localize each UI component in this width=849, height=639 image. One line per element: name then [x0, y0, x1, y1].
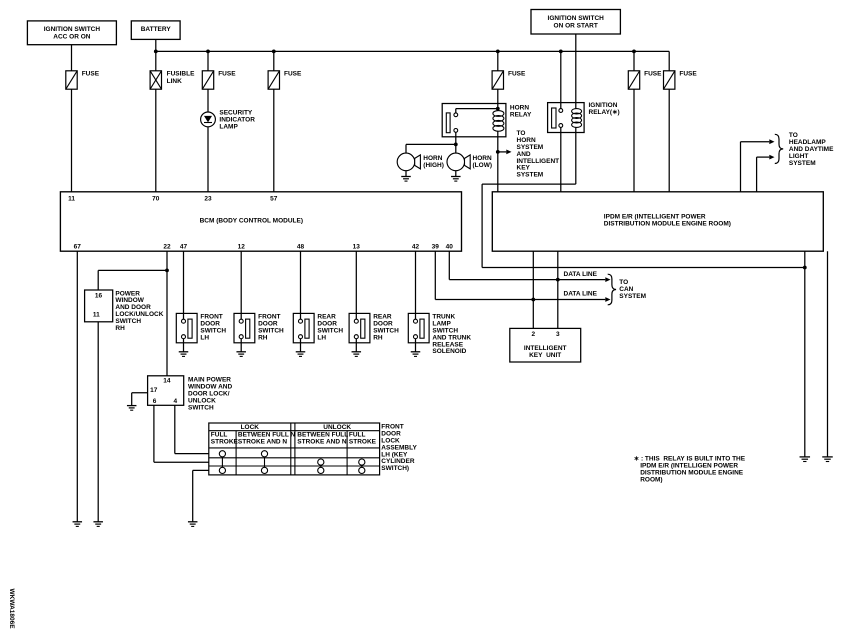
svg-text:IPDM E/R (INTELLIGENT POWER: IPDM E/R (INTELLIGENT POWER [604, 214, 706, 221]
svg-text:48: 48 [297, 244, 305, 251]
svg-text:(HIGH): (HIGH) [423, 162, 444, 169]
svg-text:STROKE: STROKE [211, 438, 239, 445]
svg-text:40: 40 [446, 244, 454, 251]
svg-text:42: 42 [412, 244, 420, 251]
svg-text:UNLOCK: UNLOCK [188, 398, 216, 405]
svg-text:ON OR START: ON OR START [554, 22, 598, 29]
svg-text:RH: RH [115, 325, 125, 332]
svg-text:LOCK: LOCK [241, 424, 260, 431]
svg-text:MAIN POWER: MAIN POWER [188, 376, 231, 383]
svg-text:BATTERY: BATTERY [141, 26, 172, 33]
svg-text:70: 70 [152, 195, 160, 202]
svg-text:N: N [291, 432, 296, 439]
svg-text:RH: RH [258, 334, 268, 341]
svg-text:22: 22 [163, 244, 171, 251]
svg-text:SWITCH: SWITCH [188, 405, 214, 412]
svg-text:IGNITION SWITCH: IGNITION SWITCH [44, 26, 101, 33]
svg-text:LH: LH [317, 334, 326, 341]
svg-text:FUSE: FUSE [508, 70, 526, 77]
svg-text:RELAY(∗): RELAY(∗) [589, 109, 620, 116]
svg-text:LAMP: LAMP [219, 123, 238, 130]
svg-text:AND DAYTIME: AND DAYTIME [789, 146, 834, 153]
svg-text:WINDOW AND: WINDOW AND [188, 383, 232, 390]
svg-text:SYSTEM: SYSTEM [517, 172, 544, 179]
svg-text:STROKE AND N: STROKE AND N [297, 438, 347, 445]
svg-text:57: 57 [270, 195, 278, 202]
svg-text:HEADLAMP: HEADLAMP [789, 139, 826, 146]
svg-text:23: 23 [204, 195, 212, 202]
svg-text:SWITCH): SWITCH) [381, 465, 409, 472]
svg-text:4: 4 [173, 398, 177, 405]
svg-text:13: 13 [353, 244, 361, 251]
svg-text:LIGHT: LIGHT [789, 153, 809, 160]
svg-text:KEY UNIT: KEY UNIT [529, 352, 561, 359]
svg-text:12: 12 [238, 244, 246, 251]
svg-text:TO: TO [789, 132, 798, 139]
svg-text:11: 11 [68, 195, 75, 202]
svg-text:14: 14 [163, 377, 171, 384]
svg-text:17: 17 [150, 387, 158, 394]
svg-text:FUSE: FUSE [218, 70, 236, 77]
svg-text:DISTRIBUTION MODULE ENGINE ROO: DISTRIBUTION MODULE ENGINE ROOM) [604, 221, 731, 228]
svg-text:FUSE: FUSE [679, 70, 697, 77]
svg-text:BCM (BODY CONTROL MODULE): BCM (BODY CONTROL MODULE) [200, 218, 303, 225]
svg-text:3: 3 [556, 331, 560, 338]
svg-text:SYSTEM: SYSTEM [789, 160, 816, 167]
svg-text:IGNITION SWITCH: IGNITION SWITCH [548, 15, 605, 22]
svg-text:LINK: LINK [167, 78, 182, 85]
svg-text:DATA LINE: DATA LINE [564, 291, 598, 298]
svg-text:FUSE: FUSE [82, 70, 100, 77]
svg-text:RH: RH [373, 334, 383, 341]
svg-text:UNLOCK: UNLOCK [323, 424, 351, 431]
svg-text:STROKE: STROKE [349, 438, 377, 445]
svg-text:DATA LINE: DATA LINE [564, 271, 598, 278]
svg-text:FUSE: FUSE [284, 70, 302, 77]
svg-text:39: 39 [432, 244, 440, 251]
svg-text:16: 16 [95, 292, 103, 299]
svg-text:FUSIBLE: FUSIBLE [167, 71, 195, 78]
svg-text:47: 47 [180, 244, 188, 251]
svg-text:ROOM): ROOM) [640, 476, 662, 483]
svg-text:DOOR LOCK/: DOOR LOCK/ [188, 390, 230, 397]
svg-text:SOLENOID: SOLENOID [432, 348, 466, 355]
svg-text:STROKE AND N: STROKE AND N [238, 438, 288, 445]
svg-text:11: 11 [93, 311, 100, 318]
svg-text:67: 67 [74, 244, 82, 251]
svg-text:ACC OR ON: ACC OR ON [53, 34, 91, 41]
svg-text:INTELLIGENT: INTELLIGENT [524, 345, 567, 352]
svg-text:RELAY: RELAY [510, 111, 532, 118]
svg-text:FUSE: FUSE [644, 70, 662, 77]
svg-text:SYSTEM: SYSTEM [619, 293, 646, 300]
svg-text:LH: LH [200, 334, 209, 341]
svg-text:(LOW): (LOW) [473, 162, 493, 169]
svg-text:6: 6 [153, 398, 157, 405]
svg-text:2: 2 [531, 331, 535, 338]
svg-text:WKWA1806E: WKWA1806E [8, 589, 15, 630]
